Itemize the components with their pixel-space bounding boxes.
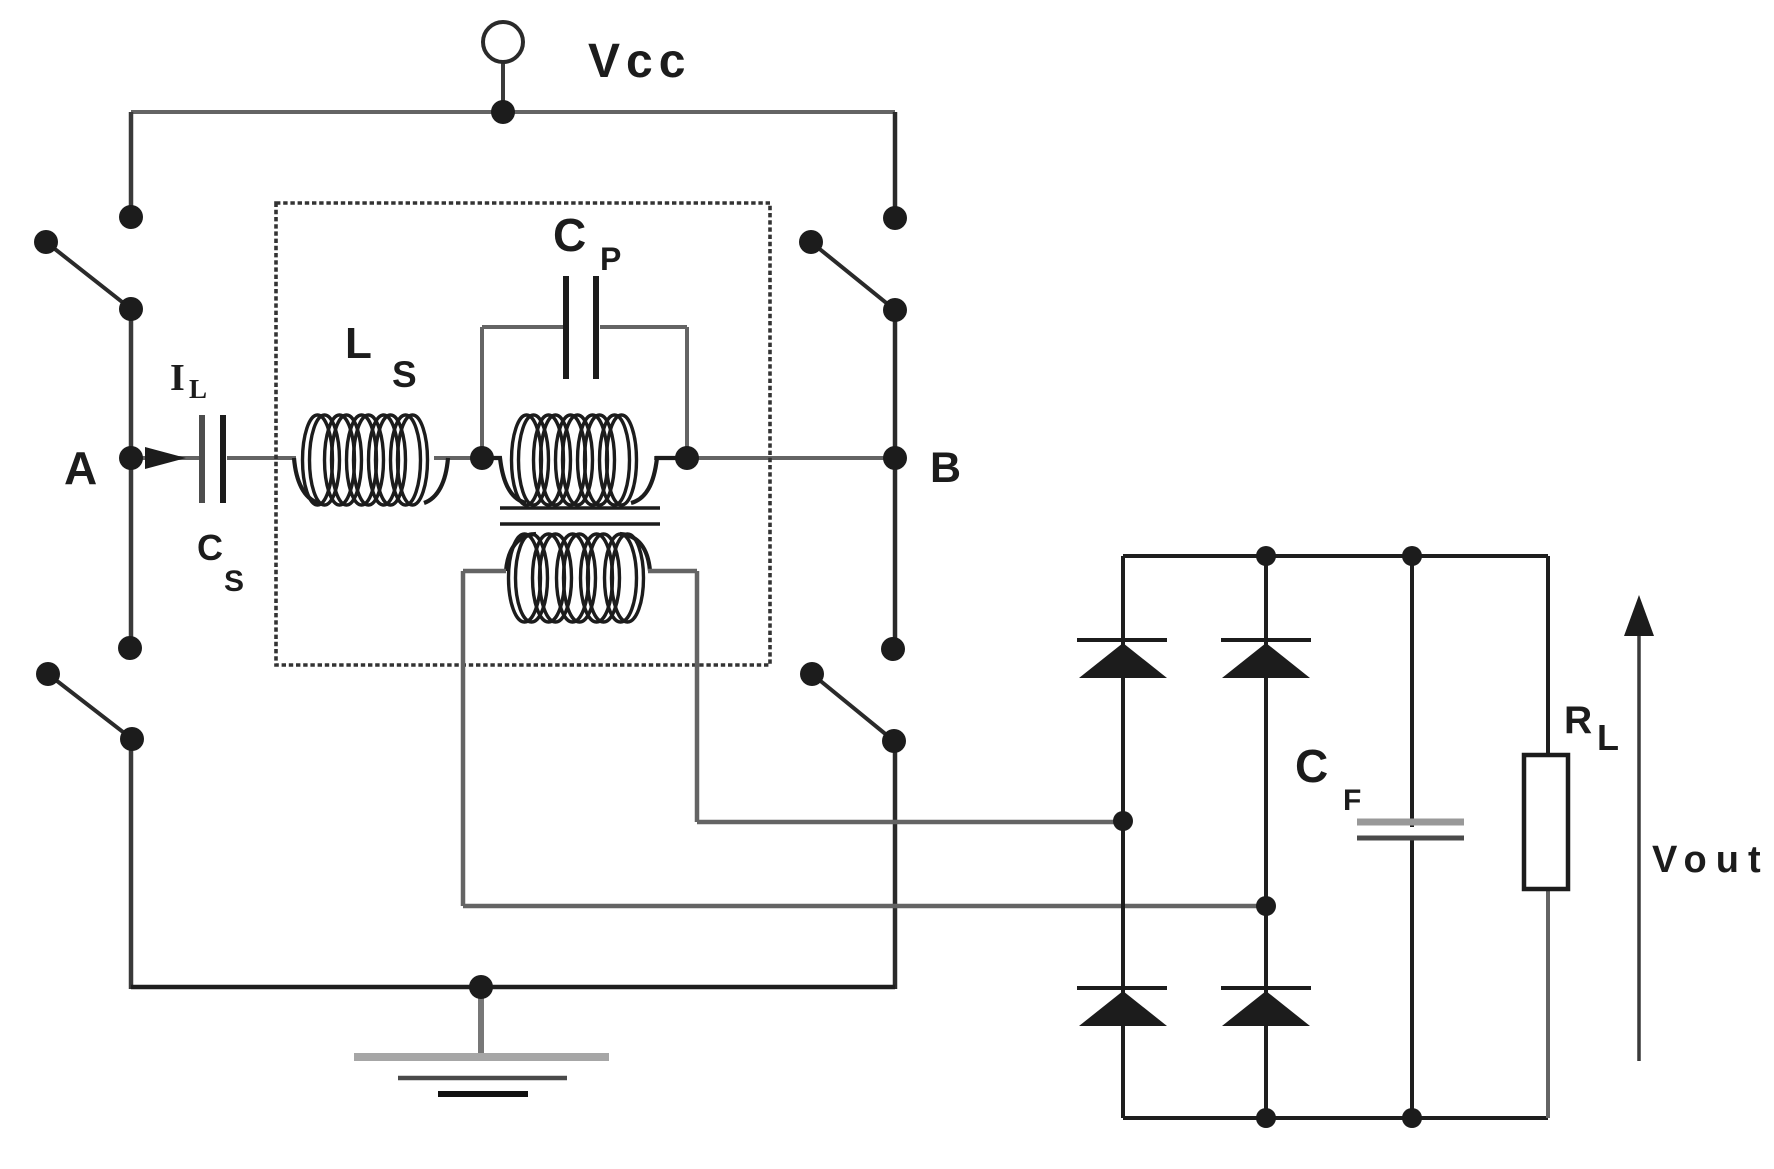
svg-text:S: S bbox=[224, 565, 244, 598]
svg-text:C: C bbox=[553, 209, 586, 261]
svg-text:I: I bbox=[170, 357, 185, 399]
svg-text:L: L bbox=[189, 374, 207, 404]
svg-text:R: R bbox=[1564, 699, 1592, 742]
svg-text:C: C bbox=[1295, 740, 1328, 792]
svg-text:L: L bbox=[1597, 717, 1619, 758]
svg-text:Vcc: Vcc bbox=[588, 35, 691, 88]
svg-text:S: S bbox=[392, 354, 417, 395]
svg-text:A: A bbox=[64, 442, 97, 494]
svg-text:C: C bbox=[197, 527, 223, 568]
svg-text:B: B bbox=[930, 444, 961, 492]
svg-text:F: F bbox=[1343, 784, 1361, 817]
svg-text:Vout: Vout bbox=[1652, 839, 1770, 881]
svg-text:L: L bbox=[345, 319, 372, 368]
svg-text:P: P bbox=[600, 241, 621, 277]
